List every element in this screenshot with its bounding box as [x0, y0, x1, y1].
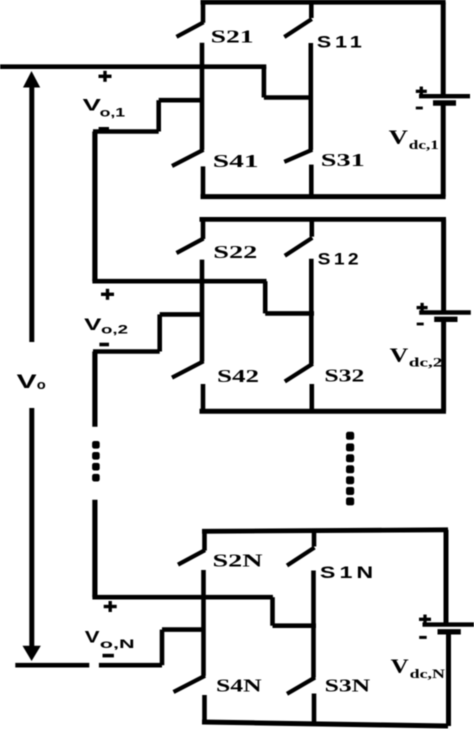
svg-text:S4N: S4N: [216, 676, 262, 696]
svg-text:S41: S41: [213, 151, 259, 171]
svg-text:S32: S32: [324, 366, 364, 386]
svg-text:V: V: [84, 316, 101, 334]
svg-text:o,1: o,1: [100, 107, 126, 119]
svg-text:o,2: o,2: [101, 324, 128, 336]
svg-text:S42: S42: [217, 366, 259, 386]
svg-text:V: V: [85, 628, 100, 646]
svg-text:dc,1: dc,1: [409, 137, 439, 152]
svg-text:S3N: S3N: [325, 676, 371, 696]
svg-text:o,N: o,N: [100, 639, 135, 651]
svg-text:S1N: S1N: [320, 563, 377, 582]
svg-text:V: V: [83, 97, 101, 115]
svg-text:S21: S21: [211, 26, 254, 46]
svg-text:S22: S22: [213, 242, 257, 262]
svg-text:dc,N: dc,N: [410, 666, 446, 681]
svg-text:V: V: [391, 656, 409, 677]
svg-text:S11: S11: [317, 33, 366, 52]
svg-text:V: V: [390, 345, 409, 366]
svg-text:S2N: S2N: [213, 551, 263, 571]
svg-text:S31: S31: [321, 150, 365, 170]
svg-text:V: V: [17, 371, 37, 393]
svg-text:V: V: [389, 128, 408, 149]
svg-text:S12: S12: [318, 250, 362, 269]
svg-text:dc,2: dc,2: [409, 355, 443, 370]
svg-text:o: o: [37, 377, 46, 392]
